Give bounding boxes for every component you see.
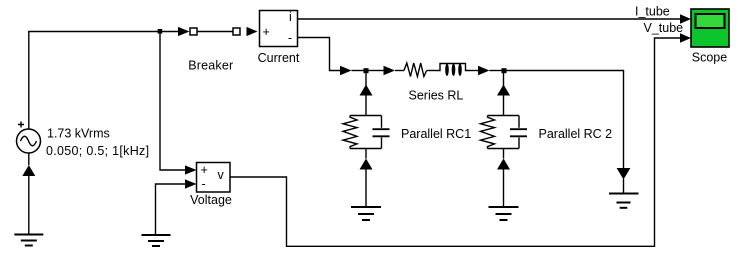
- series line arrow c: [478, 66, 490, 75]
- wire: [369, 70, 384, 72]
- svg-text:Breaker: Breaker: [188, 59, 233, 73]
- series line arrow b: [384, 66, 396, 75]
- svg-text:1.73 kVrms: 1.73 kVrms: [47, 127, 110, 141]
- Parallel RC1 input arrow (up): [360, 85, 373, 96]
- wire: Voltage output around bottom to Scope input 2 (net V_tube): [230, 38, 682, 246]
- wire: [427, 70, 437, 72]
- wire: junction down to Voltage + input: [160, 32, 185, 171]
- ground input arrow (down) at right: [617, 168, 631, 180]
- subsystem Parallel RC 2 (R and C in parallel): [481, 116, 528, 149]
- svg-text:+: +: [201, 163, 208, 177]
- wire: J2 right and down to ground: [507, 71, 624, 169]
- voltmeter block Voltage: [197, 163, 231, 193]
- source ground arrow (up): [22, 165, 35, 176]
- svg-text:Parallel RC1: Parallel RC1: [401, 127, 471, 141]
- wire: Current - output down to series line: [298, 38, 342, 71]
- Parallel RC1 ground arrow (up): [360, 159, 373, 170]
- scope input arrow 2: [680, 33, 691, 42]
- wire: down to ground under RC1: [365, 169, 367, 207]
- svg-text:Scope: Scope: [692, 51, 727, 65]
- Voltage - input arrow: [185, 179, 197, 188]
- svg-text:Voltage: Voltage: [190, 193, 232, 207]
- wire: AC source top terminal up and right to breaker: [29, 32, 178, 130]
- node J2: [502, 68, 507, 73]
- ammeter block Current: [260, 10, 298, 47]
- node: junction on top wire (tap to Voltage +): [158, 29, 163, 34]
- svg-text:Series RL: Series RL: [409, 89, 464, 103]
- Parallel RC2 ground arrow (up): [497, 159, 510, 170]
- wire: Voltage - input to ground: [156, 184, 186, 235]
- subsystem Parallel RC1 (R and C in parallel): [343, 116, 390, 149]
- breaker Breaker (two port squares with link): [190, 28, 240, 35]
- wire: [395, 70, 404, 72]
- Parallel RC2 input arrow (up): [497, 85, 510, 96]
- wire: [490, 70, 502, 72]
- svg-text:0.050; 0.5; 1[kHz]: 0.050; 0.5; 1[kHz]: [46, 144, 149, 158]
- ground: right: [609, 194, 639, 208]
- wire: down to ground under RC2: [503, 169, 505, 207]
- ground: under source: [14, 235, 43, 246]
- ground: under Parallel RC2: [489, 207, 519, 220]
- ground: under Parallel RC1: [351, 207, 381, 220]
- svg-text:+: +: [263, 25, 270, 39]
- series line arrow a: [340, 66, 352, 75]
- Voltage + input arrow: [185, 165, 197, 174]
- svg-text:V_tube: V_tube: [644, 21, 684, 35]
- scope input arrow 1: [680, 14, 691, 23]
- wire: [470, 70, 478, 72]
- ground: under Voltage -: [142, 235, 171, 246]
- resistor of Series RL: [404, 63, 427, 77]
- svg-text:I_tube: I_tube: [635, 5, 670, 19]
- svg-text:i: i: [289, 10, 292, 24]
- node J1: [364, 68, 369, 73]
- svg-text:-: -: [288, 31, 292, 45]
- svg-text:-: -: [202, 177, 206, 191]
- wire: J2 down to Parallel RC2: [503, 71, 505, 116]
- wire: Parallel RC1 bottom stub: [365, 149, 367, 159]
- scope Scope: [691, 9, 729, 47]
- inductor of Series RL: [437, 63, 470, 75]
- wire: source bottom stub: [28, 153, 30, 165]
- wire: J1 down to Parallel RC1: [365, 71, 367, 116]
- breaker input arrow: [178, 27, 190, 36]
- wire: [352, 70, 364, 72]
- breaker output arrow: [247, 27, 258, 36]
- svg-text:v: v: [218, 168, 225, 182]
- wire: [623, 179, 625, 193]
- svg-text:Current: Current: [258, 51, 300, 65]
- wire: Current i output to Scope input 1 (net I_tube): [298, 18, 683, 20]
- wire: down to ground under source: [28, 176, 30, 235]
- source V1: AC voltage source: [17, 122, 41, 154]
- wire: Parallel RC2 bottom stub: [503, 149, 505, 159]
- svg-text:Parallel RC 2: Parallel RC 2: [539, 127, 613, 141]
